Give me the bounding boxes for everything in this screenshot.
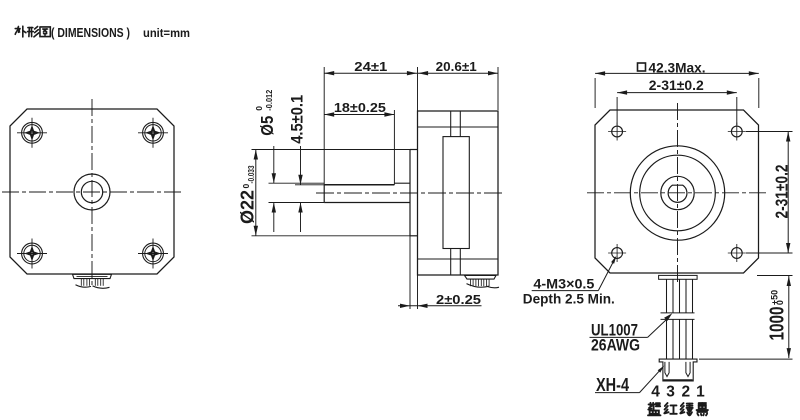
side view top tie rod	[450, 111, 452, 137]
label Chinese wire colors 蓝红绿黑 hand-drawn	[648, 403, 660, 416]
XH-4 connector	[659, 359, 697, 381]
ext line body rear top	[497, 67, 499, 110]
left view horizontal centerline	[2, 191, 182, 193]
wire guard bar	[659, 275, 698, 279]
shaft tip face	[323, 185, 325, 203]
dim Ø5 lines+arrows	[273, 146, 275, 183]
2-dim ext lines	[409, 236, 411, 309]
dim Ø5 label rotated	[254, 89, 277, 135]
wire break lines	[661, 312, 695, 314]
dim 1000 +50/0 wire length	[767, 290, 789, 341]
left view connector pins	[80, 279, 82, 286]
2-31 ext lines down to holes	[616, 97, 618, 125]
dim 4.5±0.1 label rotated	[288, 95, 307, 144]
dim 42.3 line+arrows	[595, 72, 759, 74]
Ø22 ext lines	[252, 149, 411, 151]
svg-text:26AWG: 26AWG	[591, 335, 640, 354]
right view end bell circle	[630, 146, 724, 240]
svg-text:1000: 1000	[767, 307, 789, 341]
right view shaft circle with flat	[668, 185, 687, 202]
mounting hole at (736.8,131.5)	[728, 123, 746, 141]
svg-text:2-31±0.2: 2-31±0.2	[649, 78, 704, 93]
svg-text:Ø5: Ø5	[257, 115, 277, 135]
lead wires upper segment	[666, 279, 668, 313]
mounting hole at (617.1,253)	[608, 244, 626, 262]
left view center shaft hole circle	[81, 181, 102, 202]
Ø5 ext lines	[269, 182, 325, 184]
right view pilot hole circle	[661, 176, 694, 209]
lead wires lower segment	[666, 319, 668, 359]
title: Chinese 外形图 (outline drawing) hand-drawn glyphs	[15, 26, 26, 37]
dim 4.5 lines+arrows	[300, 146, 302, 185]
4.5 ext line flat top	[295, 184, 324, 186]
svg-text:2±0.25: 2±0.25	[436, 292, 481, 307]
svg-text:unit=mm: unit=mm	[143, 26, 190, 40]
svg-text:4: 4	[651, 384, 660, 401]
svg-text:20.6±1: 20.6±1	[436, 59, 477, 74]
svg-text:0: 0	[775, 300, 785, 305]
dim Ø22 label rotated	[237, 165, 257, 224]
svg-text:( DIMENSIONS ): ( DIMENSIONS )	[51, 26, 130, 40]
svg-text:-0.012: -0.012	[264, 89, 274, 110]
right view vertical centerline	[677, 103, 679, 283]
phillips screw at (153,132.8)	[138, 118, 168, 148]
svg-text:4.5±0.1: 4.5±0.1	[288, 95, 307, 144]
42.3 ext lines	[594, 78, 596, 108]
shaft axis centerline	[316, 192, 505, 194]
ext line shaft tip / 18 / 24 shared	[323, 67, 325, 185]
side view bottom connector	[465, 275, 497, 279]
side view bottom tie rod	[450, 249, 452, 276]
svg-text:1: 1	[696, 384, 705, 401]
mounting hole at (736.8,253)	[728, 244, 746, 262]
left view bottom connector	[73, 274, 112, 278]
side view connector pins	[470, 279, 472, 286]
ext line flange face top	[417, 67, 419, 111]
side view shaft with flat	[324, 202, 410, 204]
mounting hole at (617.1,131.5)	[608, 123, 626, 141]
phillips screw at (153,253.5)	[138, 239, 168, 269]
svg-text:0: 0	[254, 106, 264, 111]
left view center boss circle	[74, 174, 110, 210]
1000 ext lines	[757, 275, 793, 277]
dim Ø22 line+arrows	[255, 150, 257, 236]
svg-text:3: 3	[666, 384, 675, 401]
left view wire curls	[76, 285, 92, 287]
side view stator stack	[443, 137, 469, 249]
right 2-31 ext lines	[746, 131, 793, 133]
phillips screw at (32,253.5)	[17, 239, 47, 269]
svg-text:Depth 2.5 Min.: Depth 2.5 Min.	[523, 291, 615, 307]
dim square 42.3 label	[638, 63, 646, 71]
left view vertical centerline	[91, 99, 93, 286]
right view horizontal centerline	[587, 192, 769, 194]
right view: motor front face square with chamfered corners	[595, 110, 759, 273]
dim 2-31±0.2 vertical right	[771, 164, 791, 218]
phillips screw at (32,132.8)	[17, 118, 47, 148]
XH-4 leader	[595, 392, 640, 394]
svg-text:-0.033: -0.033	[246, 165, 256, 183]
4-M3 leader	[532, 290, 599, 292]
ext line flat end	[393, 110, 395, 183]
connector latch slots	[665, 362, 669, 377]
svg-text:18±0.25: 18±0.25	[334, 100, 386, 115]
left view: motor rear face square with chamfered corners	[10, 109, 174, 274]
side view pilot boss	[409, 150, 411, 236]
UL1007 leader	[590, 336, 648, 338]
svg-text:4-M3×0.5: 4-M3×0.5	[533, 276, 594, 292]
svg-text:2: 2	[681, 384, 690, 401]
right view raised face circle	[640, 155, 716, 231]
svg-text:Ø22: Ø22	[237, 190, 257, 224]
side view motor body	[418, 111, 499, 275]
side view rear endbell line	[418, 258, 499, 260]
side view front endbell line	[418, 126, 499, 128]
svg-text:24±1: 24±1	[354, 59, 387, 74]
side view wire curls	[467, 284, 490, 288]
